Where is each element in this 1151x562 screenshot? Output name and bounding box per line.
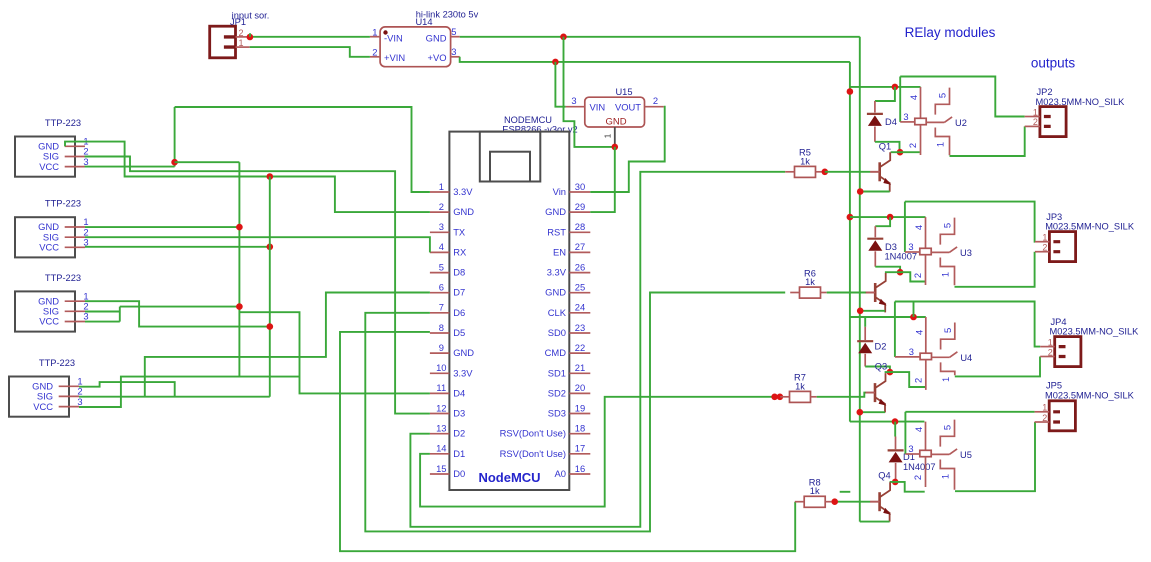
svg-text:VCC: VCC [39,316,59,327]
NodeMCU pin 15 D0 [430,473,450,475]
TTP2 pin 3 VCC [65,246,85,248]
TTP4 pin 3 VCC [59,406,79,408]
svg-text:2: 2 [912,273,923,278]
relay U4 switch [941,323,955,350]
touch sensor TTP2 [15,217,75,257]
wire TTP1 VCC to 3.3V net [85,166,175,168]
svg-text:25: 25 [575,282,585,293]
svg-text:TTP-223: TTP-223 [45,273,81,283]
U14 pin 2 lead [370,56,380,58]
svg-text:TTP-223: TTP-223 [45,118,81,128]
D1 cathode lead [895,437,897,450]
junction Q1 emitter GND [857,188,864,195]
wire R5 to Q1 base [825,171,871,173]
svg-text:1: 1 [604,133,613,138]
svg-text:2: 2 [1042,413,1047,423]
svg-text:29: 29 [575,201,585,212]
svg-text:GND: GND [545,287,566,298]
svg-text:3: 3 [571,95,576,106]
svg-text:1: 1 [1042,403,1047,413]
JP2 pin stubs [1044,117,1051,127]
wire U5 pin1 to JP5 pin2 [955,422,1035,491]
svg-text:U14: U14 [415,17,432,27]
wire frame-left to U4 pin3 [894,302,896,357]
U14 pin 5 lead [451,36,460,38]
D3 cathode lead [874,226,876,237]
junction before R7 a [771,394,778,401]
NodeMCU pin 30 Vin [569,191,590,193]
wire GND vertical rail [859,37,861,522]
svg-text:+VO: +VO [427,52,446,63]
svg-text:3.3V: 3.3V [547,267,567,278]
D2 anode lead [864,354,866,367]
wire TTP4 VCC to D4 net [79,377,300,407]
svg-text:D1: D1 [453,448,465,459]
svg-text:Vin: Vin [553,186,566,197]
wire pin 13 D2 loop to R5 [410,172,785,527]
svg-text:Q3: Q3 [875,362,887,372]
svg-text:23: 23 [575,322,585,333]
junction TTP2 VCC [267,244,274,251]
svg-text:TTP-223: TTP-223 [45,199,81,209]
JP3 pin 1 lead [1035,241,1049,243]
svg-text:GND: GND [605,117,626,128]
svg-text:1k: 1k [795,381,805,391]
wire TTP4 SIG line [79,396,270,398]
wire TTP1 GND to pin 2 GND [65,142,430,213]
svg-text:21: 21 [575,362,585,373]
svg-text:5: 5 [942,328,953,333]
wire D2 anode jog [865,367,890,373]
TTP3 pin 3 VCC [65,321,85,323]
svg-text:JP4: JP4 [1051,317,1067,327]
U4 pin 3 lead [895,356,920,358]
svg-text:VOUT: VOUT [615,102,641,113]
connector JP3 [1049,232,1075,262]
svg-text:1: 1 [940,474,951,479]
wire Q2 collector to U3 pin2 [885,272,926,281]
junction frame tap block3 [910,314,917,321]
svg-text:2: 2 [1042,243,1047,253]
svg-text:8: 8 [439,322,444,333]
svg-text:RST: RST [547,226,566,237]
connector JP2 [1040,107,1066,137]
svg-text:SD3: SD3 [548,408,566,419]
svg-text:TX: TX [453,226,466,237]
wire U4 pin3 frame to JP4 pin1 [895,302,1040,347]
wire U2 pin3 frame to JP2 pin1 [900,77,1024,117]
svg-text:D4: D4 [885,117,897,127]
svg-text:RSV(Don't Use): RSV(Don't Use) [500,428,566,439]
wire TTP3 VCC [85,321,120,323]
svg-text:1k: 1k [800,156,810,166]
svg-text:JP3: JP3 [1046,212,1062,222]
svg-text:GND: GND [545,206,566,217]
wire R6 to Q2 base [827,292,867,294]
wire JP1-2 to U14-1 [250,36,370,38]
U3 pin 3 lead [905,251,920,253]
wire +V rail block1 [850,86,921,88]
wire U4 pin1 to JP4 pin2 [955,357,1040,377]
diode D3 [867,238,883,240]
touch sensor TTP4 [9,377,69,417]
wire TTP2 SIG to pin 4 RX [85,237,430,252]
wire Q1 collector to U2 pin2 [891,151,920,153]
NodeMCU pin 21 SD1 [569,372,590,374]
svg-text:D7: D7 [453,287,465,298]
TTP1 pin 3 VCC [65,166,85,168]
transistor Q2 [874,283,877,302]
NodeMCU pin 22 CMD [569,352,590,354]
Q4 base lead [870,501,879,503]
svg-text:U2: U2 [955,118,967,128]
svg-text:D2: D2 [875,342,887,352]
transistor Q4 [878,492,881,511]
resistor R5 1k [795,166,816,177]
svg-text:1: 1 [940,272,951,277]
relay U2 coil [920,87,922,118]
wire Q4 emitter to GND rail end [860,521,890,523]
svg-text:10: 10 [436,362,446,373]
transistor Q3 [874,383,877,402]
D3 anode lead [874,251,876,266]
svg-text:GND: GND [453,347,474,358]
svg-text:1N4007: 1N4007 [903,462,936,472]
wire Q3 collector to U4 pin2 [885,372,926,387]
wire +V rail block2 [850,216,926,218]
JP5 pin stubs [1053,412,1060,422]
svg-text:19: 19 [575,402,585,413]
NodeMCU pin 26 3.3V [569,272,590,274]
JP2 pin 2 lead [1025,125,1040,127]
JP5 pin 1 lead [1035,411,1050,413]
svg-text:5: 5 [942,223,953,228]
wire Q4 collector to U5 pin2 [890,482,925,492]
JP1 pin stubs [224,37,236,47]
junction TTP2 GND [236,224,243,231]
TTP1 pin 1 GND [65,145,85,147]
D2 cathode lead [864,327,866,340]
svg-text:GND: GND [426,33,447,44]
wire TTP4 GND stair [79,382,175,397]
wire D1 cathode [894,422,896,437]
wire +VO to U15 VIN [555,62,565,107]
wire stub dash near R8 [840,491,851,493]
svg-text:U15: U15 [615,87,632,97]
NodeMCU pin 11 D4 [430,392,450,394]
NodeMCU pin 24 CLK [569,312,590,314]
svg-text:1: 1 [1048,337,1053,347]
NodeMCU pin 19 SD3 [569,413,590,415]
svg-text:24: 24 [575,302,585,313]
svg-text:1: 1 [372,26,377,37]
junction Q2 emitter GND [857,308,864,315]
NodeMCU pin 10 3.3V [430,372,450,374]
wire pin 8 D5 loop to R8 [340,332,795,551]
junction Q4 base wire [831,498,838,505]
NodeMCU pin 8 D5 [430,332,450,334]
Q3 base lead [866,392,875,394]
D1 anode lead [895,463,897,482]
svg-text:1: 1 [239,38,244,48]
junction GND net top [267,173,274,180]
wire V239 net to pin 11 D4 [239,312,430,393]
svg-text:VCC: VCC [39,242,59,253]
relay U3 coil [925,217,927,248]
svg-text:JP5: JP5 [1046,381,1062,391]
svg-text:30: 30 [575,181,585,192]
U5 pin 3 lead [905,453,919,455]
junction +V rail block2 [847,214,854,221]
TTP2 pin 1 GND [65,226,85,228]
wire U15 VOUT to NodeMCU Vin [590,107,664,192]
junction TTP3 SIG [236,303,243,310]
wire TTP2 VCC to GND net [85,246,270,248]
svg-text:17: 17 [575,443,585,454]
TTP3 pin 1 GND [65,300,85,302]
D4 anode lead [874,127,876,142]
wire TTP3 SIG/VCC jog vertical [119,307,121,322]
svg-text:26: 26 [575,261,585,272]
svg-text:D3: D3 [885,242,897,252]
junction Q3 emitter GND [857,409,864,416]
svg-text:1k: 1k [810,486,820,496]
svg-text:1: 1 [1033,107,1038,117]
svg-text:1: 1 [935,142,946,147]
svg-text:2: 2 [239,28,244,38]
wire stub above JP1 junction [249,33,251,37]
U15 pin 2 lead [645,106,664,108]
svg-text:13: 13 [436,423,446,434]
resistor R8 1k [804,496,825,507]
JP3 pin 2 lead [1035,251,1049,253]
NodeMCU pin 2 GND [430,211,450,213]
module NodeMCU body [449,132,569,490]
svg-text:14: 14 [436,443,446,454]
wire JP1-1 to U14-2 [250,47,370,57]
NodeMCU pin 12 D3 [430,413,450,415]
NodeMCU pin 6 D7 [430,292,450,294]
svg-text:4: 4 [913,427,924,432]
junction Q4 collector [892,479,899,486]
svg-text:15: 15 [436,463,446,474]
NodeMCU pin 27 EN [569,251,590,253]
JP3 pin stubs [1053,242,1060,252]
NodeMCU antenna inner [490,152,530,182]
svg-text:18: 18 [575,423,585,434]
relay U2 switch [935,88,949,115]
wire pin 7 D6 loop to R6 [365,293,785,532]
wire U2 pin1 to JP2 pin2 [950,126,1025,156]
wire +VO net U14-3 to right [460,57,850,62]
wire TTP3 SIG [85,311,120,313]
svg-text:2: 2 [653,95,658,106]
NodeMCU pin 4 RX [430,251,450,253]
touch sensor TTP1 [15,137,75,177]
wire net V239 vertical [238,162,240,376]
svg-text:2: 2 [912,475,923,480]
svg-text:VIN: VIN [590,102,606,113]
wire 3.3V net to pin 1 3.3V [175,107,430,192]
connector JP4 [1055,337,1081,367]
NodeMCU pin 25 GND [569,292,590,294]
wire TTP2 GND to V239 [85,226,239,228]
junction +VO branch to U15 VIN [552,59,559,66]
svg-text:SD2: SD2 [548,387,566,398]
wire D2 cathode tap [864,317,866,327]
junction D4 tap [892,84,899,91]
NodeMCU pin 16 A0 [569,473,590,475]
wire GND net vertical V270 [269,177,271,397]
wire U15 GND to NodeMCU pin 29 [590,147,615,212]
svg-text:2: 2 [912,378,923,383]
wire TTP3 GND to V270 [85,301,270,326]
svg-text:outputs: outputs [1031,56,1076,71]
wire Q2 emitter to GND rail [860,310,885,312]
resistor R6 1k [800,287,821,298]
svg-text:D2: D2 [453,428,465,439]
NodeMCU pin 20 SD2 [569,392,590,394]
NodeMCU antenna outer [480,132,541,182]
junction D3 tap [887,214,894,221]
svg-text:EN: EN [553,246,566,257]
wire +V rail block4 [850,421,925,423]
wire D3 anode jog [875,267,900,273]
NodeMCU pin 18 RSV(Don't Use) [569,433,590,435]
svg-text:7: 7 [439,302,444,313]
svg-text:1N4007: 1N4007 [885,252,918,262]
svg-text:D4: D4 [453,387,465,398]
svg-text:CLK: CLK [548,307,567,318]
junction D1 cathode [892,418,899,425]
transistor Q1 [878,162,881,181]
TTP1 pin 2 SIG [65,156,85,158]
svg-text:RSV(Don't Use): RSV(Don't Use) [500,448,566,459]
JP2 pin 1 lead [1025,116,1040,118]
svg-text:4: 4 [913,225,924,230]
diode D4 [867,113,883,115]
wire U3 pin3 frame to JP3 pin1 [905,202,1035,242]
wire U5 pin3 frame to JP5 pin1 [905,411,1034,413]
NodeMCU pin 9 GND [430,352,450,354]
svg-text:VCC: VCC [39,161,59,172]
svg-text:3: 3 [903,111,908,122]
junction 3.3V net [171,159,178,166]
svg-text:RElay modules: RElay modules [905,25,996,40]
wire Q3 emitter to GND rail [860,411,885,413]
svg-text:2: 2 [907,143,918,148]
svg-text:JP2: JP2 [1037,87,1053,97]
svg-text:VCC: VCC [33,401,53,412]
resistor R7 1k [790,391,811,402]
wire frame-left to U2 pin3 [899,77,901,122]
wire R7 to Q3 base [817,393,866,397]
svg-text:22: 22 [575,342,585,353]
svg-text:4: 4 [908,95,919,100]
U15 GND pin 1 lead [614,127,616,147]
wire TTP3 SIG to V239 [120,306,240,308]
JP4 pin stubs [1059,347,1066,357]
svg-text:5: 5 [451,26,456,37]
connector JP1 [210,26,236,58]
NodeMCU pin 5 D8 [430,272,450,274]
connector JP5 [1049,401,1075,431]
svg-text:5: 5 [942,425,953,430]
NodeMCU pin 28 RST [569,231,590,233]
svg-text:3: 3 [451,46,456,57]
svg-text:M023.5MM-NO_SILK: M023.5MM-NO_SILK [1045,390,1135,400]
svg-text:2: 2 [372,46,377,57]
diode D1 [888,449,904,451]
U14 pin 3 lead [451,56,460,58]
svg-text:3.3V: 3.3V [453,186,473,197]
svg-text:D6: D6 [453,307,465,318]
junction Q1 collector [897,149,904,156]
svg-text:11: 11 [436,382,446,393]
junction TTP3 GND [267,323,274,330]
junction +V rail block1 [847,88,854,95]
junction before R7 b [777,394,784,401]
wire jog to D4 cathode [875,87,895,101]
svg-text:1: 1 [940,377,951,382]
svg-text:SD0: SD0 [548,327,566,338]
JP1 pin 2 lead [236,36,250,38]
Q2 base lead [866,292,875,294]
NodeMCU pin 7 D6 [430,312,450,314]
wire Q1 emitter to GND rail [860,191,890,193]
svg-text:1k: 1k [805,277,815,287]
svg-text:U3: U3 [960,248,972,258]
JP4 pin 1 lead [1040,346,1055,348]
relay U5 coil [925,422,927,451]
wire +V vertical rail [849,62,851,422]
NodeMCU pin 1 3.3V [430,191,450,193]
junction Q2 collector [897,269,904,276]
U2 pin 3 lead [900,121,915,123]
svg-text:3.3V: 3.3V [453,367,473,378]
wire jog to D3 cathode [875,217,890,226]
wire frame tap vertical block3 [913,302,915,318]
wire pin 6 D7 to TTP4 SIG line [145,293,430,397]
NodeMCU pin 17 RSV(Don't Use) [569,453,590,455]
JP4 pin 2 lead [1040,356,1055,358]
svg-text:+VIN: +VIN [384,52,405,63]
svg-text:U5: U5 [960,450,972,460]
wire pin 14 D1 loop to R7 [420,397,782,507]
svg-text:2: 2 [1033,117,1038,127]
wire GND net U14-5 to right [460,36,860,38]
relay U4 coil [925,317,927,353]
wire 3.3V branch [175,161,240,163]
regulator U15 [585,97,645,127]
svg-text:3: 3 [439,221,444,232]
svg-text:2: 2 [439,201,444,212]
power module U14 [380,27,451,67]
wire U3 pin1 to JP3 pin2 [955,252,1035,287]
svg-text:1: 1 [439,181,444,192]
svg-text:4: 4 [439,241,444,252]
NodeMCU pin 13 D2 [430,433,450,435]
wire D4 anode jog [875,142,900,152]
JP5 pin 2 lead [1035,421,1050,423]
svg-text:D5: D5 [453,327,465,338]
svg-text:1: 1 [1042,233,1047,243]
TTP2 pin 2 SIG [65,236,85,238]
svg-text:20: 20 [575,382,585,393]
svg-text:M023.5MM-NO_SILK: M023.5MM-NO_SILK [1045,222,1135,232]
TTP3 pin 2 SIG [65,310,85,312]
svg-text:5: 5 [937,93,948,98]
